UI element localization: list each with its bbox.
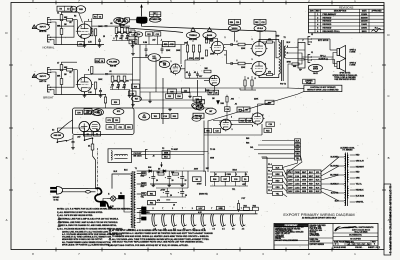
svg-text:POWER SW: POWER SW bbox=[150, 19, 160, 21]
svg-text:3: 3 bbox=[252, 59, 253, 61]
svg-text:.022: .022 bbox=[122, 87, 126, 89]
extra mixer boxes C22 R34 bbox=[166, 94, 174, 99]
svg-text:8: 8 bbox=[252, 125, 253, 127]
svg-text:GRN: GRN bbox=[356, 178, 361, 180]
heater label boxes mid bbox=[197, 206, 205, 210]
svg-text:2: 2 bbox=[172, 208, 173, 210]
footswitch cable wires bbox=[132, 151, 146, 153]
wire cord to switch bbox=[93, 156, 96, 189]
svg-text:C1: C1 bbox=[57, 12, 59, 14]
svg-text:P2: P2 bbox=[162, 148, 164, 150]
svg-text:3: 3 bbox=[252, 39, 253, 41]
bright tone resistor RT13 bbox=[123, 76, 126, 82]
wire fuse area second run bbox=[120, 24, 184, 33]
wire C21 to R43 bbox=[232, 63, 238, 65]
title block outline bbox=[274, 224, 378, 250]
mid label box R35 bbox=[168, 89, 177, 94]
svg-text:250K: 250K bbox=[120, 81, 125, 83]
third filter row bbox=[148, 201, 156, 205]
svg-text:7025: 7025 bbox=[79, 9, 83, 11]
rectifier diode D2 bbox=[149, 170, 152, 173]
wire ext jack to speakers bbox=[311, 38, 330, 40]
svg-text:1: 1 bbox=[225, 37, 226, 39]
pilot lamp I1 bbox=[111, 196, 116, 201]
svg-text:V5 6L6: V5 6L6 bbox=[257, 28, 263, 30]
svg-text:20: 20 bbox=[170, 195, 172, 197]
warning triangle above treble bbox=[191, 28, 195, 32]
left mixer chain ground bbox=[132, 53, 134, 54]
svg-text:JOB NO.: JOB NO. bbox=[355, 247, 363, 249]
external speaker jack J2 bbox=[308, 37, 310, 45]
svg-text:TO V6: TO V6 bbox=[210, 149, 215, 151]
svg-text:4 5: 4 5 bbox=[212, 228, 215, 231]
rectifier diode D3 bbox=[163, 170, 166, 173]
wire jack2 sleeve bbox=[52, 40, 55, 45]
svg-text:RED/BLK: RED/BLK bbox=[356, 190, 365, 192]
svg-text:SHEET 1 OF 1: SHEET 1 OF 1 bbox=[368, 247, 380, 249]
svg-text:8: 8 bbox=[171, 71, 172, 73]
svg-text:T1: T1 bbox=[135, 168, 137, 170]
wire mixer bus top bbox=[135, 44, 185, 46]
ground symbol bright tone bbox=[129, 95, 131, 96]
export connector feed bus bbox=[266, 157, 268, 194]
footswitch inner winding vertical bbox=[111, 151, 112, 153]
svg-text:3.3M: 3.3M bbox=[143, 42, 147, 44]
svg-text:R71: R71 bbox=[108, 120, 111, 122]
svg-text:R74: R74 bbox=[127, 126, 130, 129]
svg-text:2/20/91: 2/20/91 bbox=[361, 28, 367, 30]
svg-text:VOLUME: VOLUME bbox=[118, 21, 127, 23]
svg-text:D1: D1 bbox=[244, 179, 246, 181]
power cord wires bbox=[63, 188, 89, 190]
svg-text:REVISIONS: REVISIONS bbox=[339, 6, 353, 10]
bright tone resistor RT11 bbox=[111, 76, 114, 82]
line choke L1 dark blob bbox=[137, 17, 147, 23]
plate resistor R14 bbox=[91, 67, 93, 74]
footswitch coil bbox=[115, 154, 118, 155]
svg-text:INPUT: INPUT bbox=[40, 76, 47, 78]
mixer cap C17 bbox=[196, 73, 199, 75]
svg-text:.047: .047 bbox=[116, 86, 120, 89]
triode V3B bbox=[209, 75, 219, 85]
svg-text:C13: C13 bbox=[156, 34, 159, 36]
svg-text:C30: C30 bbox=[236, 22, 239, 24]
wire caution box to chassis bbox=[288, 87, 304, 90]
footswitch enclosure box bbox=[108, 149, 132, 163]
svg-text:GRN: GRN bbox=[302, 176, 307, 178]
svg-text:+475V: +475V bbox=[160, 188, 166, 191]
svg-text:.047: .047 bbox=[152, 39, 156, 42]
svg-text:PLUG: PLUG bbox=[306, 82, 312, 84]
svg-text:R37: R37 bbox=[135, 98, 138, 100]
bass control label bbox=[203, 32, 216, 39]
mid bundle vertical wire 1 bbox=[162, 78, 164, 124]
svg-text:20: 20 bbox=[185, 195, 187, 197]
ground symbol filter 1 bbox=[152, 184, 154, 185]
extra vertical resistor R23 bbox=[104, 97, 106, 103]
svg-text:7: 7 bbox=[162, 208, 163, 210]
svg-text:D: D bbox=[5, 31, 7, 35]
coupling cap C21 to V5 bbox=[230, 62, 232, 65]
svg-text:2: 2 bbox=[231, 116, 232, 118]
svg-text:S2: S2 bbox=[96, 130, 98, 132]
tube label V1 bbox=[76, 6, 86, 13]
grid resistor R43 bbox=[238, 62, 245, 65]
vibrato triode V6B bbox=[252, 113, 263, 124]
svg-text:220K: 220K bbox=[254, 99, 259, 101]
component value boxes above V1 bbox=[57, 6, 72, 11]
svg-text:REVISED: REVISED bbox=[323, 24, 332, 26]
svg-text:3: 3 bbox=[232, 129, 233, 131]
filter cap C35 bbox=[151, 176, 155, 178]
svg-text:A-27163-B SCHEMATIC 60 SUPER 1: A-27163-B SCHEMATIC 60 SUPER 1 bbox=[388, 186, 393, 255]
speaker SPKR 1 bbox=[337, 49, 340, 56]
mixer cap C16 bbox=[188, 73, 191, 75]
export connector wires to table bbox=[283, 168, 288, 177]
middle ground 2 bbox=[169, 108, 171, 109]
svg-text:7025: 7025 bbox=[142, 117, 146, 119]
wire bias row verticals bbox=[214, 181, 216, 186]
second row bus bbox=[156, 187, 188, 189]
svg-text:VOLUME: VOLUME bbox=[109, 62, 118, 64]
caution box bbox=[304, 85, 342, 91]
svg-text:4 5: 4 5 bbox=[242, 228, 245, 231]
input marker triangle B bbox=[32, 74, 36, 78]
value box above V5 bbox=[254, 20, 266, 25]
wire main jack to speakers bbox=[311, 57, 337, 64]
svg-text:.047: .047 bbox=[77, 136, 81, 139]
plate resistor R4 bbox=[91, 29, 93, 36]
svg-text:R25 250K: R25 250K bbox=[189, 39, 198, 41]
svg-text:220K: 220K bbox=[166, 50, 171, 52]
svg-text:A: A bbox=[6, 218, 8, 222]
svg-text:C14: C14 bbox=[137, 33, 140, 36]
svg-text:R70: R70 bbox=[77, 112, 80, 114]
svg-text:470: 470 bbox=[268, 71, 271, 74]
svg-text:7: 7 bbox=[81, 26, 82, 28]
input jack J3 bright 1 bbox=[48, 68, 50, 75]
B+ rail from rectifier bbox=[137, 170, 149, 172]
ground symbol normal 1 bbox=[84, 45, 86, 46]
svg-text:C: C bbox=[387, 94, 389, 98]
svg-text:GRN: GRN bbox=[302, 187, 307, 189]
svg-text:BLK BIAS: BLK BIAS bbox=[356, 195, 365, 198]
svg-text:.003: .003 bbox=[231, 99, 235, 101]
wire jack3 to grid bbox=[52, 69, 67, 71]
mixer resistor R28 bbox=[192, 45, 194, 52]
T1 secondary lead stubs bbox=[137, 173, 142, 175]
fuse F2 symbol bbox=[91, 144, 94, 150]
svg-text:USE EXACT FACTORY REPLACEMENT: USE EXACT FACTORY REPLACEMENT PARTS ONLY… bbox=[112, 241, 204, 244]
svg-text:.02: .02 bbox=[194, 72, 197, 74]
svg-text:C22: C22 bbox=[168, 96, 171, 98]
svg-text:PRELIMINARY: PRELIMINARY bbox=[323, 13, 337, 16]
svg-text:DESCRIPTION: DESCRIPTION bbox=[334, 11, 347, 13]
wire label V1 to tube bbox=[79, 13, 83, 23]
svg-text:C28: C28 bbox=[269, 124, 272, 126]
svg-text:NORMAL: NORMAL bbox=[43, 46, 55, 50]
svg-text:R63: R63 bbox=[244, 205, 247, 207]
svg-text:R56: R56 bbox=[213, 179, 216, 181]
heater balance resistor Ra bbox=[243, 207, 249, 210]
svg-text:P/O T2: P/O T2 bbox=[280, 84, 286, 86]
mixer bottom-left label ellipse bbox=[139, 113, 150, 120]
middle caps row bbox=[145, 48, 148, 50]
wire jack4 to node bbox=[52, 70, 75, 88]
svg-text:2.) ALL RESISTORS 1/2 WATT 5%: 2.) ALL RESISTORS 1/2 WATT 5% UNLESS NOT… bbox=[57, 211, 103, 214]
svg-text:6: 6 bbox=[225, 54, 226, 56]
notes warning triangles bbox=[58, 217, 60, 219]
svg-text:.02: .02 bbox=[110, 23, 113, 25]
svg-text:F2: F2 bbox=[96, 134, 98, 136]
svg-text:SPKR LEADS: TIP POSITIVE (+),: SPKR LEADS: TIP POSITIVE (+), SLEEVE NEG… bbox=[62, 243, 112, 246]
ground symbol filter 2 bbox=[168, 184, 170, 185]
svg-text:470: 470 bbox=[268, 38, 271, 41]
svg-text:C26: C26 bbox=[226, 109, 229, 111]
svg-text:R50: R50 bbox=[230, 22, 233, 24]
svg-text:B: B bbox=[388, 156, 390, 160]
mid ellipse C19b bbox=[192, 103, 203, 109]
vibrato intensity ellipse bbox=[205, 108, 216, 114]
svg-text:F1: F1 bbox=[120, 193, 122, 195]
svg-text:.1: .1 bbox=[236, 174, 238, 176]
svg-text:.047: .047 bbox=[119, 37, 123, 40]
wire fuse to choke bbox=[123, 19, 124, 21]
title block drawing title rows bbox=[333, 232, 378, 234]
left cluster box R36 bbox=[132, 84, 140, 89]
svg-text:C2: C2 bbox=[67, 8, 69, 10]
power switch S1 detail table bbox=[150, 12, 161, 17]
svg-text:25: 25 bbox=[103, 36, 105, 38]
tube label V1 small ellipse bbox=[70, 6, 77, 12]
ground symbol bright 1 bbox=[84, 95, 86, 96]
wire jack2 to node bbox=[52, 20, 75, 38]
tube label V2 pair bbox=[84, 109, 92, 114]
svg-text:BRT CH: BRT CH bbox=[39, 81, 46, 83]
svg-text:R47: R47 bbox=[209, 91, 212, 94]
feedback resistor R46 bbox=[292, 63, 299, 65]
vibrato triode V6A bbox=[220, 119, 231, 130]
heater hum balance wires bbox=[251, 207, 253, 210]
microfilm margin strip bbox=[384, 184, 391, 255]
svg-text:2: 2 bbox=[221, 208, 222, 210]
svg-text:R31: R31 bbox=[154, 116, 157, 118]
svg-text:4 5: 4 5 bbox=[232, 228, 235, 231]
svg-text:ALL TRANSFORMER LEADS VIEWED F: ALL TRANSFORMER LEADS VIEWED FROM BOTTOM… bbox=[62, 241, 112, 244]
svg-text:2: 2 bbox=[153, 208, 154, 210]
grid stopper R13 bbox=[67, 68, 73, 71]
wire grid loop lower bbox=[58, 25, 74, 27]
mixer bottom boxes row bbox=[152, 113, 160, 118]
svg-text:R3: R3 bbox=[60, 8, 62, 10]
svg-text:S3: S3 bbox=[52, 130, 54, 132]
wire channel 2 to tone bus bbox=[127, 73, 133, 75]
svg-text:1.25A: 1.25A bbox=[295, 186, 300, 189]
svg-text:10M: 10M bbox=[184, 43, 188, 45]
svg-text:1.25A: 1.25A bbox=[295, 182, 300, 185]
revisions table bbox=[309, 6, 385, 33]
heater bus rails bbox=[143, 209, 252, 211]
svg-text:C51: C51 bbox=[115, 120, 118, 122]
wire V2 grid bbox=[76, 70, 78, 85]
mid bundle vertical wire 2 bbox=[197, 80, 199, 96]
svg-text:7: 7 bbox=[81, 80, 82, 82]
svg-text:250K: 250K bbox=[123, 32, 128, 34]
cathode bypass cap C4 bbox=[98, 39, 101, 41]
vibrato left label boxes bbox=[197, 100, 205, 104]
speed control label box bbox=[237, 107, 250, 112]
wire bass wiper bbox=[209, 39, 211, 44]
svg-text:R64: R64 bbox=[253, 204, 256, 207]
svg-text:10: 10 bbox=[173, 205, 175, 207]
B+ distribution rail bbox=[140, 87, 288, 89]
thick power cord squiggle bbox=[95, 188, 112, 208]
triode V3B phase inverter bbox=[211, 41, 223, 53]
svg-text:RELEASED PR-LL: RELEASED PR-LL bbox=[323, 30, 341, 33]
svg-text:BRN: BRN bbox=[296, 145, 301, 147]
svg-text:470K: 470K bbox=[195, 57, 200, 60]
footswitch wire color box GRN bbox=[162, 151, 170, 155]
svg-text:R53: R53 bbox=[266, 130, 269, 132]
svg-text:.1: .1 bbox=[110, 87, 112, 89]
svg-text:TP1: TP1 bbox=[232, 189, 235, 191]
svg-text:.1: .1 bbox=[236, 60, 238, 62]
opto label ellipse bbox=[91, 110, 101, 116]
wire jack4 sleeve bbox=[52, 90, 55, 95]
grid resistor R1 bbox=[60, 15, 63, 21]
svg-text:C18: C18 bbox=[164, 116, 167, 118]
vibrato right value boxes bbox=[265, 100, 274, 104]
svg-text:S2: S2 bbox=[87, 134, 89, 136]
ground symbol mixer bbox=[189, 95, 191, 96]
svg-text:2: 2 bbox=[88, 69, 89, 71]
dropping resistor R58 bbox=[158, 173, 164, 175]
wire preamp outputs to mixer bbox=[130, 79, 141, 81]
second row resistor R61 bbox=[148, 191, 156, 195]
wire V4 label to tube bbox=[234, 32, 236, 42]
svg-text:GRN: GRN bbox=[210, 157, 215, 159]
svg-text:YEL B+: YEL B+ bbox=[356, 184, 362, 186]
svg-text:C: C bbox=[5, 94, 7, 98]
svg-text:11/14/90: 11/14/90 bbox=[361, 20, 368, 23]
svg-text:5U4: 5U4 bbox=[148, 166, 151, 169]
wire PI plate bbox=[211, 39, 218, 42]
screen resistor R44 bbox=[267, 41, 273, 43]
antenna stub wire bbox=[141, 6, 143, 17]
tube pin stub marks bbox=[76, 30, 78, 32]
grid resistor R2 bbox=[60, 29, 63, 35]
wire footswitch up arrow bbox=[161, 162, 163, 167]
value box middle mixer bbox=[163, 42, 176, 47]
svg-text:INPUT: INPUT bbox=[40, 27, 47, 29]
wire V5 label to tube bbox=[259, 32, 261, 42]
svg-text:9/13/90: 9/13/90 bbox=[361, 14, 367, 16]
svg-text:5/6/91: 5/6/91 bbox=[362, 31, 367, 33]
svg-text:TO MINIMIZE HUM AND NOISE. DRE: TO MINIMIZE HUM AND NOISE. DRESS ALL HEA… bbox=[112, 235, 209, 238]
AC switch cluster boxes bbox=[84, 132, 93, 137]
svg-text:BRN: BRN bbox=[276, 174, 281, 176]
svg-text:4 5: 4 5 bbox=[222, 228, 225, 231]
ground bus normal channel bbox=[54, 44, 104, 46]
speaker jack panel rectangle bbox=[298, 43, 305, 69]
wire R1 top bbox=[62, 12, 78, 14]
input marker triangle A bbox=[32, 25, 36, 29]
triode V3 bbox=[171, 64, 181, 74]
wire screen bus bbox=[273, 42, 275, 75]
svg-text:100K: 100K bbox=[98, 79, 103, 81]
svg-text:SCALE NONE: SCALE NONE bbox=[334, 246, 347, 249]
mixer bottom-right box bbox=[193, 113, 204, 118]
screen resistor R45 bbox=[267, 73, 273, 75]
svg-text:TREBLE: TREBLE bbox=[189, 35, 197, 37]
svg-text:SCHEMATIC: SCHEMATIC bbox=[349, 233, 362, 236]
svg-text:P1-4: P1-4 bbox=[268, 182, 272, 185]
power tube V5 bbox=[252, 62, 266, 76]
svg-text:BASS: BASS bbox=[207, 34, 213, 37]
svg-text:R54: R54 bbox=[240, 119, 243, 122]
cathode resistor R5 bbox=[94, 29, 96, 36]
wire V1 plate up bbox=[85, 22, 92, 29]
svg-text:C50: C50 bbox=[86, 112, 89, 114]
svg-text:4 5: 4 5 bbox=[193, 228, 196, 231]
svg-text:WIRES CARRYING A.C. HEATER POW: WIRES CARRYING A.C. HEATER POWER MUST BE… bbox=[112, 232, 213, 235]
svg-text:R20: R20 bbox=[114, 102, 117, 104]
T1 secondary winding bbox=[134, 172, 135, 175]
value boxes above plate network bbox=[93, 14, 102, 18]
svg-text:100K: 100K bbox=[98, 26, 103, 28]
ground switch label ellipse bbox=[51, 132, 64, 139]
svg-text:R38: R38 bbox=[196, 99, 199, 101]
svg-text:C3: C3 bbox=[99, 16, 101, 18]
svg-text:J1: J1 bbox=[311, 52, 313, 54]
svg-text:SPKR: SPKR bbox=[313, 69, 319, 71]
svg-text:REVISED: REVISED bbox=[323, 28, 332, 30]
input label ellipse normal bbox=[36, 24, 49, 31]
svg-text:(50/60 HZ): (50/60 HZ) bbox=[199, 194, 208, 196]
svg-text:C25: C25 bbox=[214, 92, 217, 94]
svg-text:APPROVED: APPROVED bbox=[371, 10, 382, 13]
export transformer secondary tap labels bbox=[350, 154, 355, 156]
svg-text:GND SW: GND SW bbox=[54, 135, 62, 137]
bias test resistor row bbox=[211, 176, 220, 181]
svg-text:.022: .022 bbox=[125, 38, 129, 40]
svg-text:EXPORT PRIMARY WIRING DIAGR: EXPORT PRIMARY WIRING DIAGRAM bbox=[283, 212, 354, 217]
B+ rail drops bbox=[91, 12, 93, 14]
svg-text:R36: R36 bbox=[134, 86, 137, 88]
svg-text:EXTERNAL LINE FUSE 2 AMP SLO-B: EXTERNAL LINE FUSE 2 AMP SLO-BLO FOR 120… bbox=[60, 217, 119, 220]
svg-text:C19: C19 bbox=[196, 105, 199, 107]
svg-text:FUSE: FUSE bbox=[295, 172, 301, 174]
svg-text:C41: C41 bbox=[250, 146, 253, 149]
svg-text:J2: J2 bbox=[311, 34, 313, 36]
vibrato wires mesh bbox=[213, 120, 252, 122]
cathode bypass cap C9 bbox=[99, 90, 102, 92]
value box above V4 bbox=[229, 20, 241, 25]
bright tone wires bbox=[108, 73, 127, 75]
wire feedback bbox=[299, 57, 302, 64]
AC balance label ellipse 1 bbox=[148, 54, 160, 62]
svg-text:8: 8 bbox=[287, 46, 288, 48]
svg-text:P/O T1: P/O T1 bbox=[128, 230, 134, 232]
tone network resistor RT1 bbox=[115, 28, 118, 34]
svg-text:REVISED: REVISED bbox=[323, 17, 332, 19]
left cluster ellipse bbox=[132, 96, 142, 102]
dash-dot chassis boundary line bbox=[97, 148, 99, 196]
fuse label ellipse bbox=[114, 18, 124, 24]
svg-text:4 5: 4 5 bbox=[163, 228, 166, 231]
T1 primary lead wires bbox=[112, 174, 131, 189]
export voltage table bbox=[287, 170, 321, 193]
